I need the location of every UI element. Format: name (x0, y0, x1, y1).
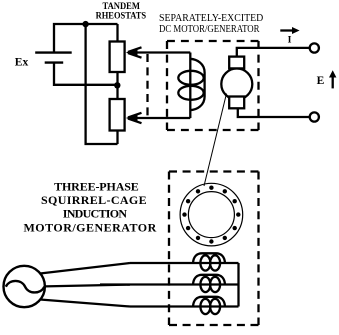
DC armature M1 (221, 69, 252, 100)
wire wiper2 to field winding bottom (133, 117, 190, 119)
dashed enclosure: DC machine (167, 41, 259, 130)
svg-text:I: I (288, 35, 292, 46)
node B (junction dot) (114, 82, 120, 88)
wire battery top to node A (54, 24, 118, 52)
wire phase C feed (40, 300, 130, 307)
field winding L1 (178, 53, 204, 119)
svg-text:E: E (317, 75, 325, 87)
wire phase B feed (45, 285, 130, 287)
wire R1 top feed (116, 24, 118, 42)
current arrow I (280, 27, 299, 46)
battery Ex (35, 53, 71, 63)
stator winding phase B (100, 275, 239, 292)
label: TANDEM RHEOSTATS (96, 2, 147, 21)
svg-text:RHEOSTATS: RHEOSTATS (96, 11, 147, 21)
terminal T1 (310, 43, 319, 52)
node A (junction dot) (82, 21, 88, 27)
stator winding phase C (130, 297, 239, 314)
wire node A down left rail (86, 24, 118, 144)
wire R1 bottom to R2 top (116, 72, 118, 99)
svg-text:Ex: Ex (15, 57, 29, 69)
brush bottom (229, 97, 244, 109)
squirrel cage rotor (outer ring) (180, 183, 243, 246)
terminal T2 (310, 112, 319, 121)
rheostat R2 (110, 99, 125, 131)
brush top (229, 57, 244, 69)
svg-text:INDUCTION: INDUCTION (63, 207, 128, 221)
rotor bars (dots) (182, 186, 240, 244)
stator winding phase A (130, 253, 239, 270)
label: THREE-PHASE SQUIRREL-CAGE INDUCTION MOTOR/GENERATOR (24, 179, 157, 234)
wire armature bottom to terminal (238, 108, 310, 117)
svg-text:THREE-PHASE: THREE-PHASE (54, 179, 139, 193)
rheostat R1 (110, 42, 125, 73)
wire wiper1 to field winding (133, 51, 190, 53)
rheostat R1 wiper arrow (126, 47, 142, 57)
wire armature top to terminal (237, 48, 310, 57)
squirrel cage rotor (inner ring) (188, 192, 234, 238)
svg-text:SQUIRREL-CAGE: SQUIRREL-CAGE (41, 193, 147, 207)
svg-text:SEPARATELY-EXCITED: SEPARATELY-EXCITED (159, 13, 263, 24)
svg-text:MOTOR/GENERATOR: MOTOR/GENERATOR (24, 220, 157, 234)
wire phase A feed (40, 263, 130, 274)
label: SEPARATELY-EXCITED DC MOTOR/GENERATOR (159, 13, 263, 35)
star point bus wire (237, 263, 239, 307)
AC source G1 (4, 266, 45, 307)
voltage arrow E (317, 70, 337, 88)
mechanical tandem link (dashed) (146, 54, 148, 116)
rheostat R2 wiper arrow (126, 113, 142, 123)
wire R2 bottom (116, 131, 118, 145)
dashed enclosure: induction machine (169, 172, 259, 326)
svg-text:DC MOTOR/GENERATOR: DC MOTOR/GENERATOR (159, 24, 260, 35)
wire battery bottom to node B (54, 63, 118, 85)
shaft pointer line (204, 94, 227, 187)
